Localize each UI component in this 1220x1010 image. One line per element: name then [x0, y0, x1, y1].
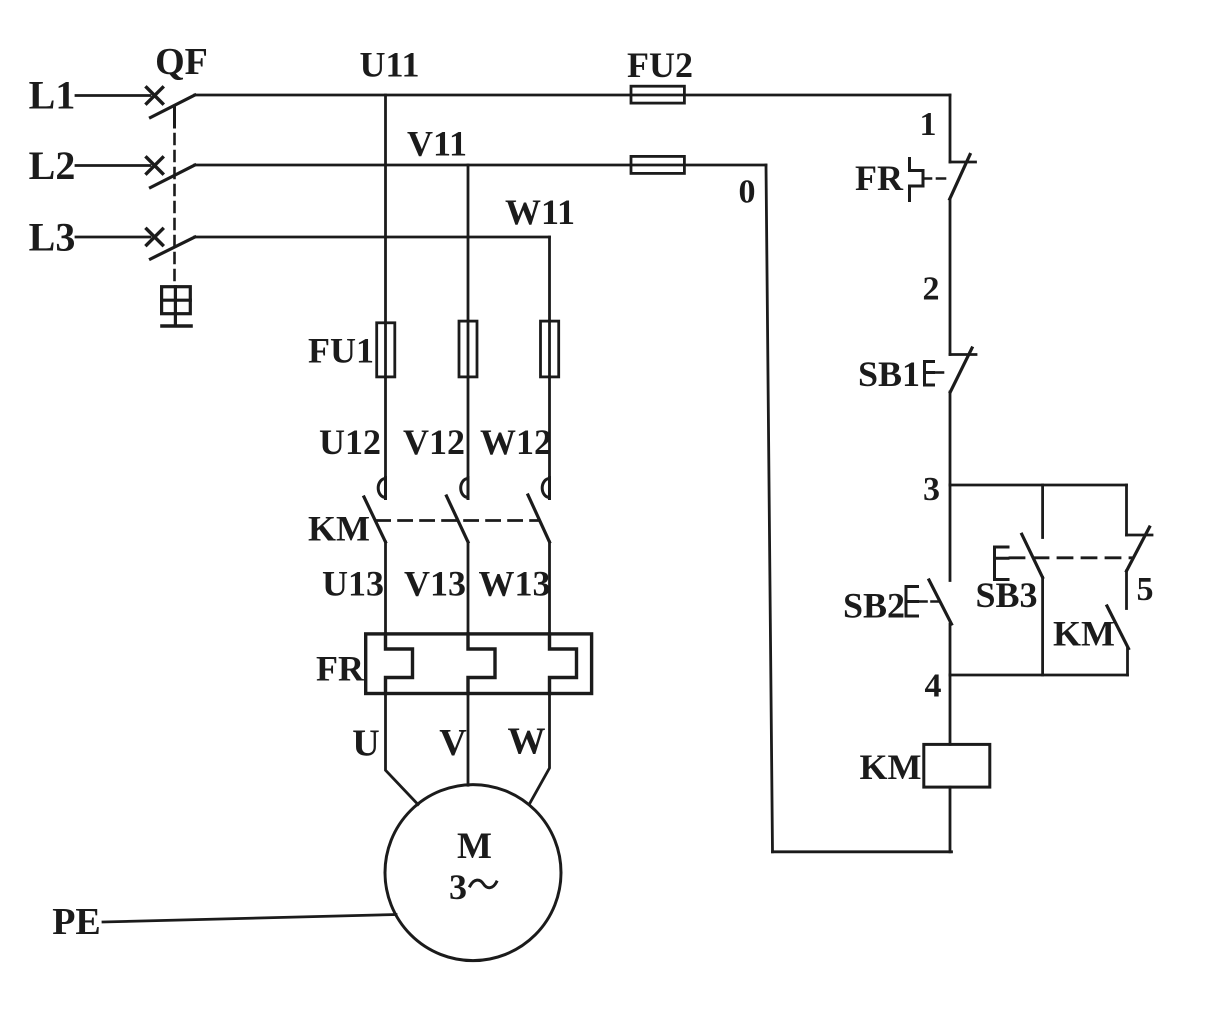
wire W fuse to contactor [548, 377, 551, 478]
breaker QF pole 1 cross mark [147, 88, 163, 104]
svg-text:5: 5 [1137, 571, 1154, 608]
contactor KM main contact pole W fixed hook [542, 478, 549, 499]
svg-text:V13: V13 [404, 564, 466, 604]
svg-text:W13: W13 [479, 564, 551, 604]
fuse FU1 pole V body [459, 321, 477, 377]
contactor coil KM body [924, 744, 990, 787]
breaker QF pole 2 blade [151, 165, 195, 188]
wire control line down from rail [949, 95, 952, 162]
wire FR contact to SB1 [949, 199, 952, 355]
breaker QF operator stem [174, 314, 177, 325]
jog button SB3 NC fixed tick [1127, 534, 1153, 537]
wire phase V drop [467, 165, 470, 321]
motor tilde mark [470, 880, 497, 888]
breaker QF operator base bar [162, 324, 191, 328]
fuse FU1 pole U element wire [384, 323, 387, 377]
wire bottom return rail [773, 850, 952, 853]
svg-text:QF: QF [155, 41, 208, 83]
svg-text:1: 1 [920, 106, 937, 143]
svg-text:3: 3 [923, 471, 940, 508]
stop button SB1 operator [925, 362, 934, 386]
breaker QF linkage tick [173, 106, 176, 127]
wire phase W drop [548, 237, 551, 321]
wire SB1 to node 3 [949, 392, 952, 485]
fuse FU1 pole V element wire [467, 321, 470, 377]
wire SB3 NC to KM aux [1125, 571, 1128, 609]
svg-text:FU1: FU1 [308, 331, 374, 371]
svg-text:KM: KM [1053, 614, 1115, 654]
contactor KM main contact pole W blade [528, 495, 550, 542]
wire L1 feed [76, 94, 150, 97]
wire node 3 branch rail [950, 484, 1127, 487]
contactor KM auxiliary NO blade [1107, 606, 1129, 649]
wire neutral 0 drop [766, 165, 773, 852]
svg-text:U: U [352, 723, 379, 765]
thermal relay FR heater element W [550, 634, 577, 694]
wire SB2 to node 4 [949, 624, 952, 675]
breaker QF pole 1 blade [151, 95, 195, 118]
jog button SB3 operator [995, 547, 1009, 580]
stop button SB1 fixed tick [950, 353, 976, 356]
svg-text:KM: KM [308, 509, 370, 549]
wire U contactor to FR [384, 542, 387, 634]
breaker QF operator box cross [162, 287, 191, 314]
svg-text:W: W [508, 721, 546, 763]
wire V contactor to FR [467, 542, 470, 634]
svg-text:0: 0 [739, 174, 756, 211]
jog button SB3 NC branch upper wire [1125, 485, 1128, 535]
svg-text:V11: V11 [407, 124, 467, 164]
svg-text:SB2: SB2 [843, 586, 905, 626]
motor M circle [385, 785, 561, 961]
thermal relay FR NC contact blade [950, 155, 970, 200]
contactor KM main contact pole U blade [364, 497, 386, 542]
jog button SB3 NO branch upper wire [1041, 485, 1044, 538]
fuse FU1 pole W element wire [548, 321, 551, 377]
thermal relay FR heater box [366, 634, 592, 694]
start button SB2 operator [906, 587, 918, 617]
svg-text:PE: PE [52, 901, 101, 943]
jog button SB3 NO blade [1022, 534, 1043, 577]
svg-text:L1: L1 [29, 73, 76, 118]
svg-text:FU2: FU2 [627, 45, 693, 85]
svg-text:SB1: SB1 [858, 354, 920, 394]
svg-text:KM: KM [860, 747, 922, 787]
contactor KM main contacts linkage dashed line [377, 519, 539, 522]
svg-text:M: M [457, 826, 492, 867]
svg-text:U13: U13 [322, 564, 384, 604]
wire coil to bottom rail [949, 787, 952, 852]
wire W contactor to FR [548, 542, 551, 634]
fuse FU2 upper body [631, 86, 684, 103]
breaker QF pole 2 cross mark [147, 158, 163, 174]
svg-text:W12: W12 [480, 422, 552, 462]
svg-text:U11: U11 [359, 45, 419, 85]
svg-text:L2: L2 [29, 143, 76, 188]
wire node 4 branch rail [950, 674, 1128, 677]
fuse FU1 pole W body [541, 321, 559, 377]
jog button SB3 NC blade [1127, 527, 1150, 571]
contactor KM main contact pole V fixed hook [461, 478, 468, 499]
svg-text:FR: FR [316, 649, 365, 689]
breaker QF linkage dashed line [173, 134, 176, 286]
wire V fuse to contactor [467, 377, 470, 478]
svg-text:2: 2 [923, 271, 940, 308]
wire top rail L1 to control corner [195, 94, 950, 97]
wire V lead to motor [467, 694, 470, 786]
wire node 4 to coil [949, 675, 952, 744]
svg-text:V12: V12 [403, 422, 465, 462]
thermal relay FR NC contact operator bracket [910, 159, 924, 201]
svg-text:3: 3 [449, 867, 467, 907]
svg-text:SB3: SB3 [975, 575, 1037, 615]
wire W lead to motor [530, 694, 550, 804]
svg-text:W11: W11 [505, 192, 575, 232]
contactor KM main contact pole U fixed hook [378, 478, 385, 499]
thermal relay FR heater element V [468, 634, 495, 694]
start button SB2 blade [929, 580, 952, 624]
jog button SB3 NO branch lower wire [1041, 578, 1044, 676]
wire U lead to motor [386, 694, 419, 805]
breaker QF pole 3 cross mark [147, 229, 163, 245]
thermal relay FR NC contact dashed link [923, 177, 947, 180]
wire rail L2 [195, 164, 766, 167]
svg-text:L3: L3 [29, 215, 76, 260]
wire L2 feed [76, 164, 150, 167]
fuse FU1 pole U body [377, 323, 395, 377]
start button SB2 dashed link [919, 600, 942, 603]
wire U fuse to contactor [384, 377, 387, 478]
svg-text:U12: U12 [319, 422, 381, 462]
stop button SB1 blade [950, 348, 972, 392]
thermal relay FR heater element U [386, 634, 413, 694]
start button SB2 upper wire [949, 485, 952, 581]
wire L3 feed [76, 236, 150, 239]
jog button SB3 long dashed link [1010, 556, 1131, 559]
wire KM aux to node 4 rail [1126, 649, 1129, 676]
contactor KM main contact pole V blade [447, 496, 469, 542]
breaker QF operator box [162, 287, 191, 314]
fuse FU2 lower body [631, 156, 684, 173]
svg-text:V: V [439, 722, 467, 764]
thermal relay FR NC contact fixed tick [950, 161, 976, 164]
stop button SB1 dashed link [935, 371, 948, 374]
svg-text:FR: FR [855, 158, 904, 198]
breaker QF pole 3 blade [151, 237, 195, 259]
wire rail L3 [195, 236, 550, 239]
wire phase U drop [384, 95, 387, 323]
wire PE to motor [103, 915, 396, 923]
svg-text:4: 4 [925, 668, 942, 705]
